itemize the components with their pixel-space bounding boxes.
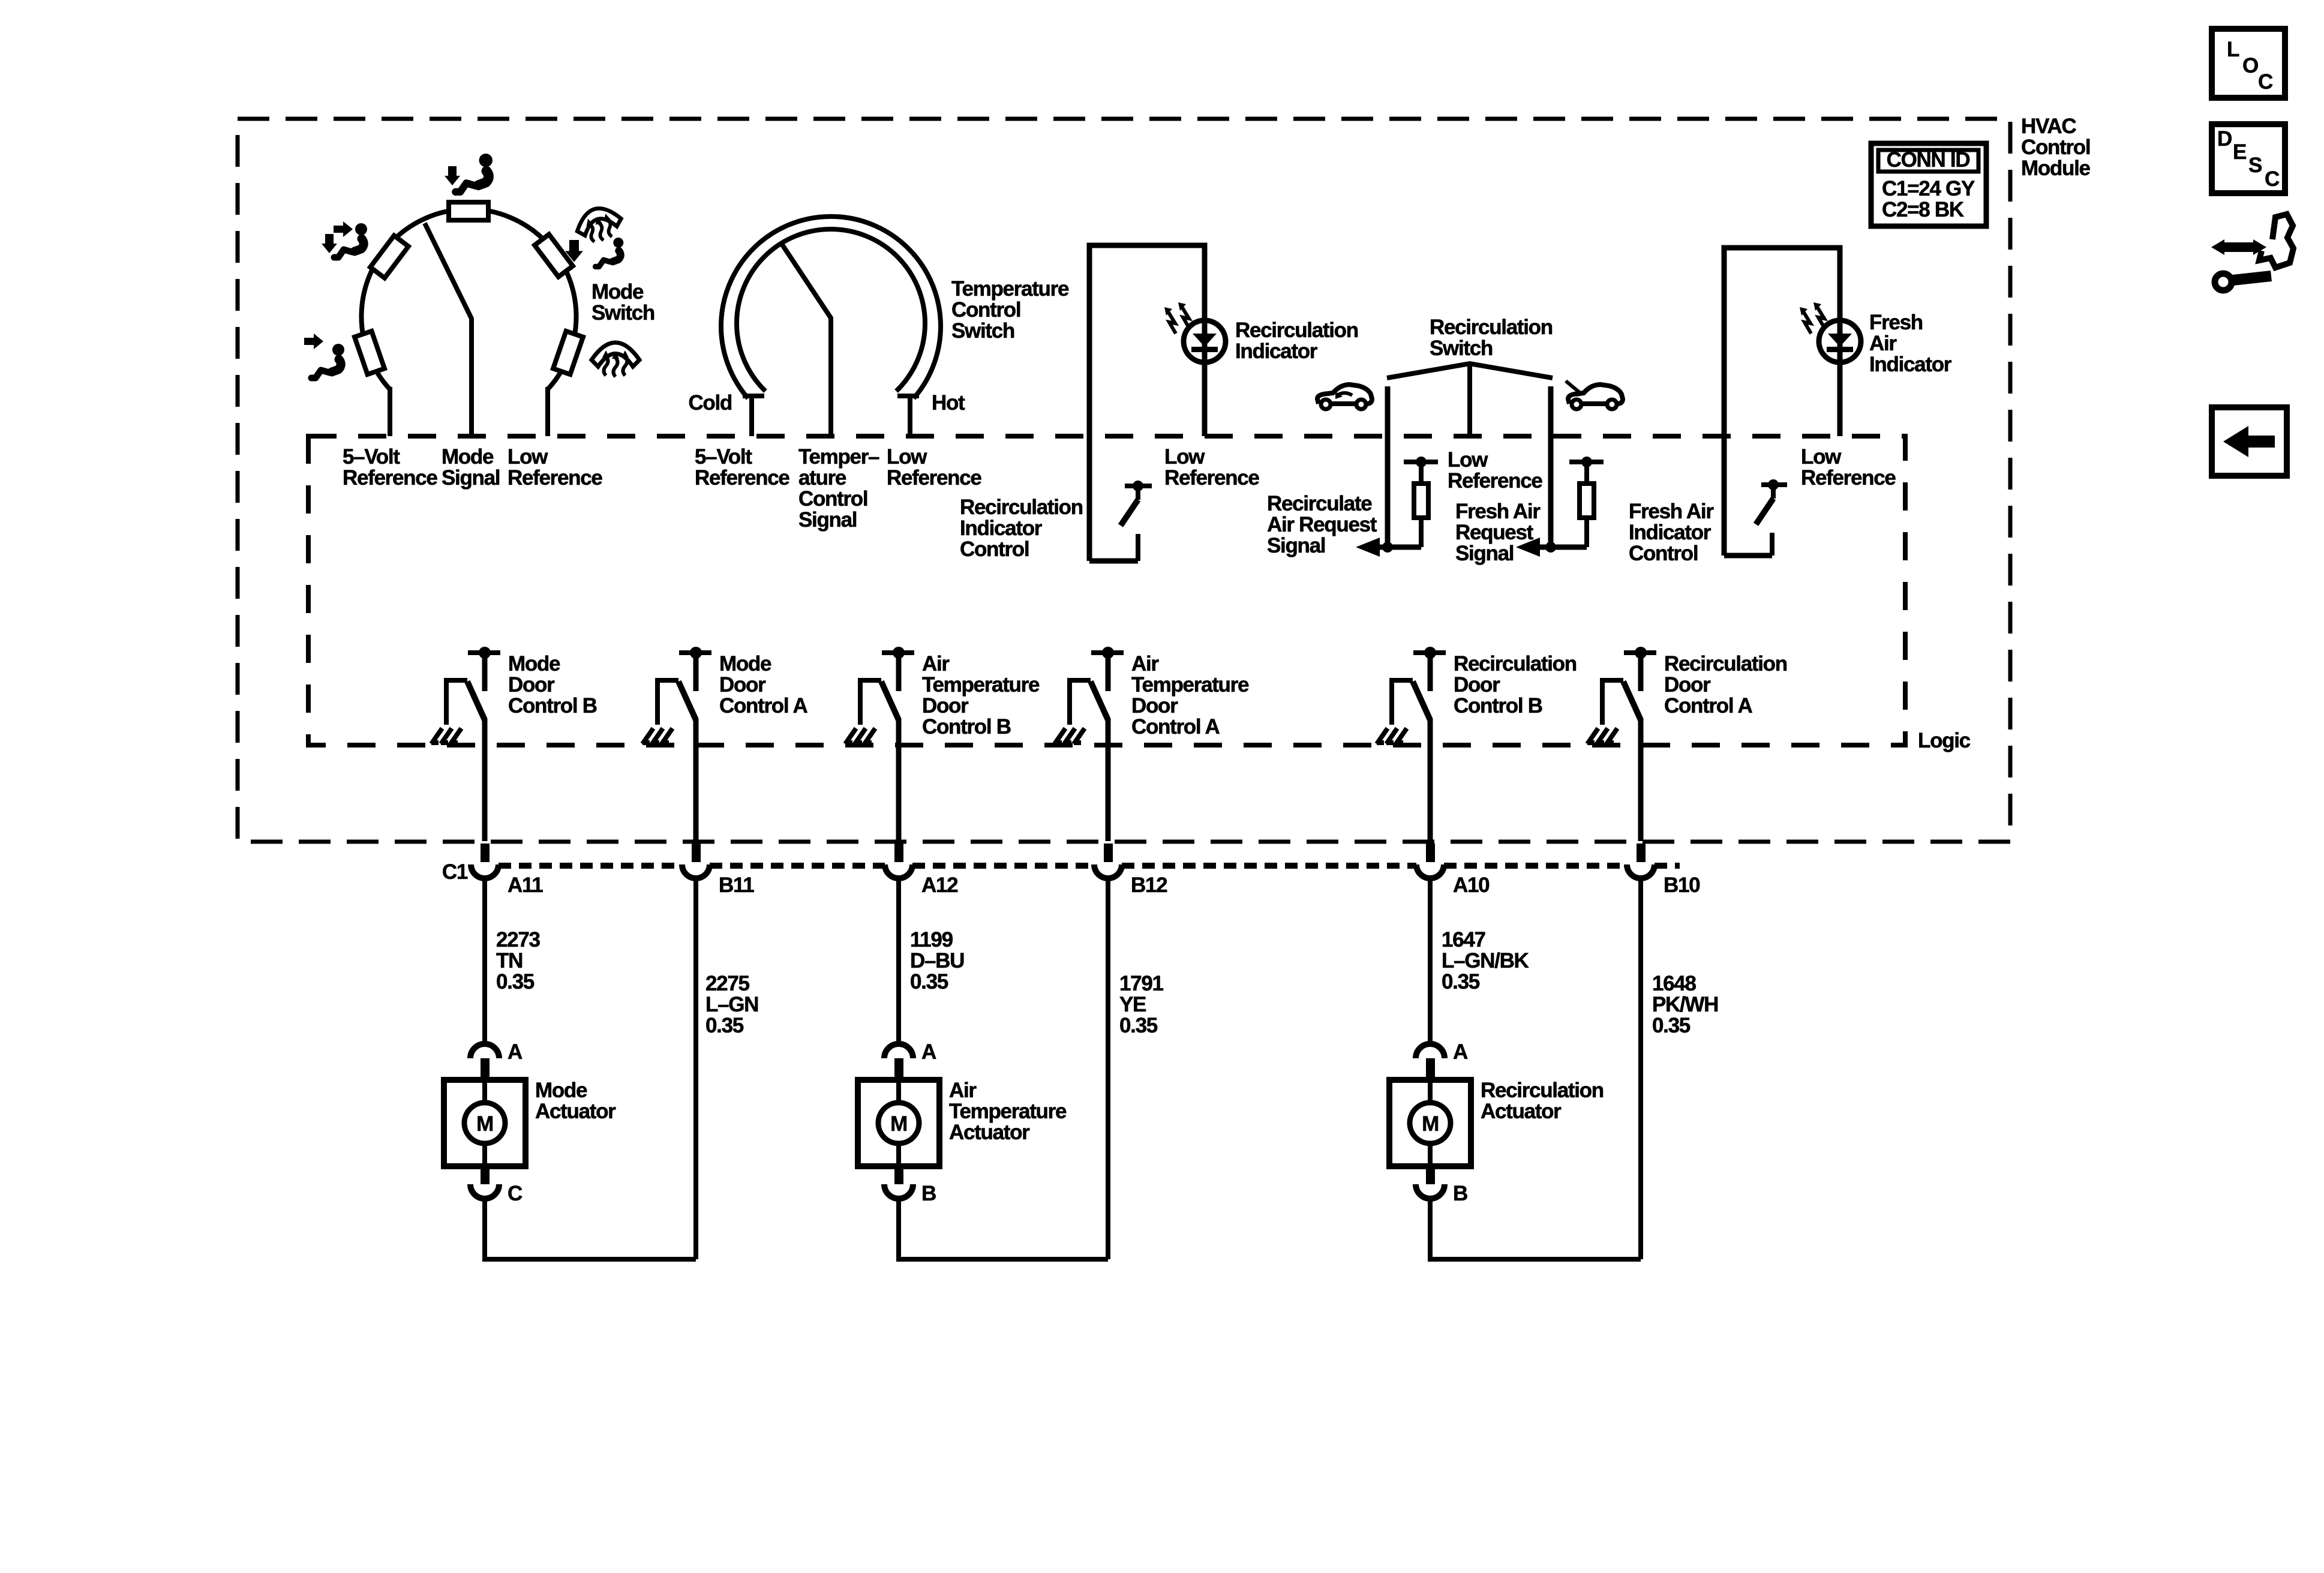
mode actuator pin stub bottom [481, 1166, 490, 1184]
svg-text:Cold: Cold [688, 391, 732, 415]
resistor segment (mode switch lower-right) [553, 331, 583, 374]
svg-text:Mode: Mode [719, 652, 771, 676]
svg-text:C: C [508, 1182, 523, 1205]
mode icon: bi-level down arrow (upper-left) [322, 234, 337, 253]
svg-text:Reference: Reference [1801, 466, 1896, 490]
svg-text:2273: 2273 [496, 928, 540, 951]
temperature control switch left foot cap [743, 394, 764, 398]
air temperature actuator motor box [858, 1080, 939, 1166]
ground (Air Temperature Door Control B) [845, 728, 875, 744]
svg-text:0.35: 0.35 [1119, 1014, 1158, 1037]
mode icon person (top) [455, 154, 493, 192]
svg-text:Temper–: Temper– [798, 445, 879, 469]
driver switch (Recirculation Door Control A) [1624, 650, 1656, 655]
resistor segment (mode switch top) [449, 202, 488, 220]
fresh air indicator LED [1819, 320, 1861, 362]
svg-text:Mode: Mode [535, 1079, 587, 1102]
svg-text:Door: Door [1131, 694, 1178, 718]
svg-text:Temperature: Temperature [949, 1100, 1067, 1123]
svg-text:Temperature: Temperature [1131, 673, 1249, 697]
ground (Mode Door Control A) [642, 728, 672, 744]
mode switch rotary resistor arc [361, 209, 576, 389]
recirculation actuator pin stub bottom [1426, 1166, 1435, 1184]
svg-text:0.35: 0.35 [705, 1014, 744, 1037]
driver switch (Air Temperature Door Control A) [1091, 650, 1124, 655]
recirculation actuator connector pin B [1416, 1184, 1445, 1199]
wire 1648 PK/WH 0.35 (C1-B10 to recirc actuator B) [1638, 877, 1643, 1259]
svg-text:Hot: Hot [932, 391, 965, 415]
svg-text:Fresh Air: Fresh Air [1455, 500, 1541, 523]
svg-text:Mode: Mode [508, 652, 560, 676]
svg-text:Low: Low [1801, 445, 1842, 469]
resistor segment (mode switch lower-left) [355, 331, 385, 374]
svg-text:Switch: Switch [951, 319, 1014, 343]
svg-text:C: C [2265, 167, 2280, 191]
mode icon: windshield defrost fan (lower-right) [591, 343, 639, 377]
LOC legend box [2212, 29, 2285, 98]
svg-text:A12: A12 [921, 873, 958, 897]
air temperature actuator connector pin B [884, 1184, 913, 1199]
svg-text:Module: Module [2021, 157, 2091, 180]
svg-text:S: S [2248, 154, 2262, 177]
svg-text:Reference: Reference [1448, 469, 1542, 493]
resistor segment (mode switch upper-left) [370, 236, 409, 278]
svg-text:B11: B11 [719, 873, 754, 897]
air temperature actuator motor M [878, 1103, 919, 1143]
svg-text:Indicator: Indicator [1629, 521, 1712, 544]
svg-text:1199: 1199 [910, 928, 953, 951]
driver switch (Recirculation Door Control B) [1413, 650, 1446, 655]
svg-text:D: D [2217, 127, 2232, 151]
temperature switch wiper (temperature control signal) [782, 245, 831, 437]
mode actuator motor box [444, 1080, 526, 1166]
svg-text:Low: Low [1164, 445, 1205, 469]
connector terminal B10 [1627, 864, 1655, 878]
wire air temp door control B (driver to module connector) [896, 719, 902, 841]
svg-text:CONN ID: CONN ID [1887, 148, 1970, 172]
driver switch (Mode Door Control B) [468, 650, 500, 655]
svg-text:Reference: Reference [343, 466, 437, 490]
back navigation arrow box [2212, 407, 2287, 476]
air temperature actuator connector pin A [884, 1044, 913, 1058]
svg-text:A10: A10 [1453, 873, 1490, 897]
connector pin stub (recirc door control B) [1426, 843, 1435, 862]
svg-text:Signal: Signal [442, 466, 500, 490]
wire mode door control A (driver to module connector) [693, 719, 699, 841]
connector pin stub (recirc door control A) [1637, 843, 1646, 862]
svg-text:2275: 2275 [705, 972, 749, 995]
svg-text:Control: Control [951, 298, 1020, 322]
recirculation switch left contact wire [1385, 386, 1391, 547]
connector pin stub (mode door control B) [481, 843, 490, 862]
svg-text:0.35: 0.35 [496, 970, 535, 993]
svg-text:Indicator: Indicator [960, 517, 1043, 540]
mode icon person (upper-right) [596, 238, 624, 266]
svg-text:HVAC: HVAC [2021, 115, 2076, 138]
svg-text:Control: Control [2021, 136, 2090, 159]
svg-text:5–Volt: 5–Volt [695, 445, 752, 469]
air temperature actuator pin stub top [894, 1058, 903, 1081]
wire 1791 YE 0.35 (C1-B12 to air temp actuator B) [1106, 877, 1110, 1259]
temperature switch left leg wire (cold / 5-volt reference) [749, 396, 754, 436]
svg-text:C1=24 GY: C1=24 GY [1882, 177, 1975, 200]
driver switch (Air Temperature Door Control B) [882, 650, 914, 655]
CONN ID table box [1871, 143, 1986, 226]
svg-text:Recirculation: Recirculation [1454, 652, 1577, 676]
mode icon person (lower-left) [311, 344, 344, 378]
svg-text:Logic: Logic [1918, 729, 1971, 752]
svg-text:Air: Air [1131, 652, 1159, 676]
svg-text:Switch: Switch [1430, 337, 1493, 360]
wire recirc door control B (driver to module connector) [1428, 719, 1433, 841]
svg-text:Door: Door [508, 673, 555, 697]
DESC legend box [2212, 124, 2285, 193]
svg-text:Indicator: Indicator [1235, 340, 1318, 363]
svg-text:Signal: Signal [1455, 542, 1514, 565]
svg-text:Low: Low [1448, 448, 1488, 472]
mode icon person (upper-left) [334, 223, 367, 257]
svg-text:L–GN: L–GN [705, 993, 758, 1016]
recirculation actuator pin stub top [1426, 1058, 1435, 1081]
recirculation actuator motor M [1410, 1103, 1451, 1143]
car icon (fresh air, right of switch) [1566, 381, 1623, 409]
svg-text:Door: Door [1454, 673, 1500, 697]
air temperature actuator return wire [899, 1197, 1108, 1259]
driver switch (Mode Door Control A) [679, 650, 711, 655]
mode switch right leg wire (low reference) [545, 387, 550, 436]
mode icon: panel right arrow (lower-left) [304, 334, 323, 349]
svg-text:Reference: Reference [887, 466, 981, 490]
svg-text:A: A [921, 1040, 936, 1064]
recirculation indicator LED light arrows [1164, 302, 1190, 334]
svg-text:Indicator: Indicator [1869, 353, 1952, 376]
mode actuator connector pin C [470, 1184, 499, 1199]
svg-text:L: L [2227, 38, 2239, 61]
recirculation switch right contact wire [1548, 386, 1554, 547]
svg-text:M: M [890, 1112, 907, 1136]
wire 1199 D-BU 0.35 (C1-A12 to air temp actuator A) [896, 877, 901, 1045]
connector terminal A10 [1416, 864, 1444, 878]
svg-text:Control B: Control B [1454, 694, 1542, 718]
mode icon: defog down arrow (upper-right) [565, 240, 583, 262]
svg-text:Recirculation: Recirculation [1235, 319, 1358, 342]
svg-text:Recirculation: Recirculation [1664, 652, 1787, 676]
mode switch left leg wire (5-volt reference) [388, 387, 392, 436]
svg-text:D–BU: D–BU [910, 949, 964, 972]
svg-text:Signal: Signal [1267, 534, 1325, 557]
resistor (fresh air request pull-up) [1569, 460, 1604, 464]
svg-text:Control A: Control A [719, 694, 807, 718]
svg-text:Recirculation: Recirculation [960, 496, 1083, 519]
svg-text:Recirculation: Recirculation [1481, 1079, 1604, 1102]
connector pin stub (air temp door control A) [1104, 843, 1113, 862]
svg-text:ature: ature [798, 466, 846, 490]
svg-text:0.35: 0.35 [1442, 970, 1480, 993]
mode switch wiper (mode signal) [425, 223, 472, 436]
svg-text:B: B [921, 1182, 936, 1205]
connector-view icon (arrows and terminal with wrench) [2211, 214, 2293, 290]
mode actuator pin stub top [481, 1058, 490, 1081]
recirculation switch common pole wire [1467, 364, 1472, 438]
recirculation indicator LED [1184, 320, 1226, 362]
fresh air indicator LED light arrows [1800, 302, 1825, 334]
svg-text:Recirculate: Recirculate [1267, 492, 1372, 515]
wire 2275 L-GN 0.35 (C1-B11 to mode actuator C) [693, 877, 698, 1259]
temperature switch right leg wire (hot / low reference) [908, 396, 912, 436]
svg-text:Actuator: Actuator [535, 1100, 616, 1123]
connector terminal A12 [885, 864, 912, 878]
svg-text:Control: Control [1629, 542, 1698, 565]
svg-text:Air: Air [1869, 332, 1897, 355]
mode actuator connector pin A [470, 1044, 499, 1058]
connector terminal B12 [1094, 864, 1122, 878]
recirculation switch rocker tent [1387, 364, 1553, 378]
recirculation actuator internal wire [1428, 1080, 1433, 1166]
junction dot (fresh air request) [1545, 542, 1556, 553]
svg-text:Actuator: Actuator [1481, 1100, 1562, 1123]
svg-text:Control: Control [798, 487, 867, 511]
svg-text:M: M [1422, 1112, 1439, 1136]
svg-text:TN: TN [496, 949, 523, 972]
svg-text:Door: Door [1664, 673, 1711, 697]
mode actuator return wire [485, 1197, 696, 1259]
svg-text:1647: 1647 [1442, 928, 1485, 951]
recirculation actuator return wire [1430, 1197, 1641, 1259]
svg-text:Reference: Reference [695, 466, 789, 490]
ground (Recirculation Door Control B) [1377, 728, 1407, 744]
HVAC Control Module dashed enclosure box [238, 119, 2010, 842]
connector pin stub (air temp door control B) [894, 843, 903, 862]
svg-text:1648: 1648 [1652, 972, 1696, 995]
svg-text:YE: YE [1119, 993, 1146, 1016]
mode actuator internal wire [482, 1080, 487, 1166]
svg-text:A11: A11 [508, 873, 543, 897]
recirculate air request signal arrow [1356, 538, 1380, 557]
mode icon: windshield defrost fan (upper-right) [573, 203, 626, 247]
svg-text:1791: 1791 [1119, 972, 1163, 995]
svg-text:C2=8 BK: C2=8 BK [1882, 198, 1964, 221]
Logic dashed box [308, 436, 1905, 745]
module connector C1 dotted interface line [499, 863, 682, 869]
svg-text:Air: Air [922, 652, 950, 676]
svg-text:B10: B10 [1664, 873, 1700, 897]
recirculation indicator loop wire [1089, 245, 1205, 561]
svg-text:Temperature: Temperature [951, 277, 1069, 301]
temperature control switch inner arc [737, 229, 925, 391]
recirculation actuator connector pin A [1416, 1044, 1445, 1058]
svg-text:Mode: Mode [442, 445, 494, 469]
svg-text:Door: Door [719, 673, 766, 697]
svg-text:Control B: Control B [922, 715, 1011, 739]
wire 1647 L-GN/BK 0.35 (C1-A10 to recirc actuator A) [1428, 877, 1433, 1045]
recirculation actuator motor box [1389, 1080, 1471, 1166]
wire air temp door control A (driver to module connector) [1106, 719, 1111, 841]
svg-text:Door: Door [922, 694, 969, 718]
connector pin stub (mode door control A) [692, 843, 701, 862]
svg-text:Switch: Switch [591, 301, 654, 325]
svg-text:Recirculation: Recirculation [1430, 316, 1553, 339]
svg-text:Low: Low [508, 445, 548, 469]
svg-text:Low: Low [887, 445, 927, 469]
wire recirc door control A (driver to module connector) [1638, 719, 1644, 841]
wire mode door control B (driver to module connector) [482, 719, 488, 841]
wire 2273 TN 0.35 (C1-A11 to mode actuator A) [482, 877, 487, 1045]
car icon (recirculate, left of switch) [1317, 385, 1372, 409]
ground (Recirculation Door Control A) [1587, 728, 1617, 744]
svg-text:M: M [476, 1112, 493, 1136]
svg-text:Request: Request [1455, 521, 1534, 544]
svg-text:Fresh Air: Fresh Air [1629, 500, 1714, 523]
svg-text:B: B [1453, 1182, 1467, 1205]
svg-text:C: C [2258, 70, 2273, 94]
svg-text:Reference: Reference [508, 466, 602, 490]
svg-text:Control A: Control A [1131, 715, 1220, 739]
fresh air indicator loop wire [1724, 248, 1840, 556]
svg-text:A: A [508, 1040, 523, 1064]
connector terminal B11 [682, 864, 710, 878]
resistor (recirculate air request pull-up) [1404, 460, 1438, 464]
svg-text:Air Request: Air Request [1267, 513, 1377, 536]
connector terminal A11 [471, 864, 499, 878]
svg-text:C1: C1 [442, 860, 468, 884]
fresh air indicator control switch [1761, 482, 1787, 487]
temperature control switch outer arc [721, 217, 941, 398]
svg-text:Control A: Control A [1664, 694, 1752, 718]
svg-text:O: O [2242, 54, 2258, 77]
svg-text:0.35: 0.35 [1652, 1014, 1691, 1037]
recirculation indicator control switch [1125, 484, 1152, 488]
svg-text:Temperature: Temperature [922, 673, 1040, 697]
mode icon: vent-to-floor (down arrow + seated person) above dial [445, 166, 460, 185]
svg-text:A: A [1453, 1040, 1468, 1064]
svg-text:PK/WH: PK/WH [1652, 993, 1718, 1016]
svg-text:E: E [2233, 140, 2246, 164]
svg-text:Reference: Reference [1164, 466, 1259, 490]
svg-text:5–Volt: 5–Volt [343, 445, 400, 469]
svg-text:Signal: Signal [798, 508, 857, 532]
svg-text:B12: B12 [1131, 873, 1167, 897]
temperature control switch right foot cap [897, 394, 919, 398]
mode icon: bi-level right arrow (upper-left) [334, 221, 353, 237]
svg-text:L–GN/BK: L–GN/BK [1442, 949, 1529, 972]
fresh air request signal arrow [1516, 538, 1540, 557]
svg-text:Air: Air [949, 1079, 977, 1102]
svg-text:Fresh: Fresh [1869, 311, 1923, 334]
svg-text:Mode: Mode [591, 280, 644, 304]
resistor segment (mode switch upper-right) [535, 235, 573, 277]
junction dot (recirculate air request) [1382, 542, 1393, 553]
svg-text:Actuator: Actuator [949, 1121, 1030, 1144]
air temperature actuator internal wire [896, 1080, 901, 1166]
svg-text:Control B: Control B [508, 694, 597, 718]
air temperature actuator pin stub bottom [894, 1166, 903, 1184]
mode actuator motor M [464, 1103, 505, 1143]
ground (Mode Door Control B) [431, 728, 461, 744]
svg-text:Control: Control [960, 538, 1029, 561]
ground (Air Temperature Door Control A) [1055, 728, 1085, 744]
svg-text:0.35: 0.35 [910, 970, 948, 993]
